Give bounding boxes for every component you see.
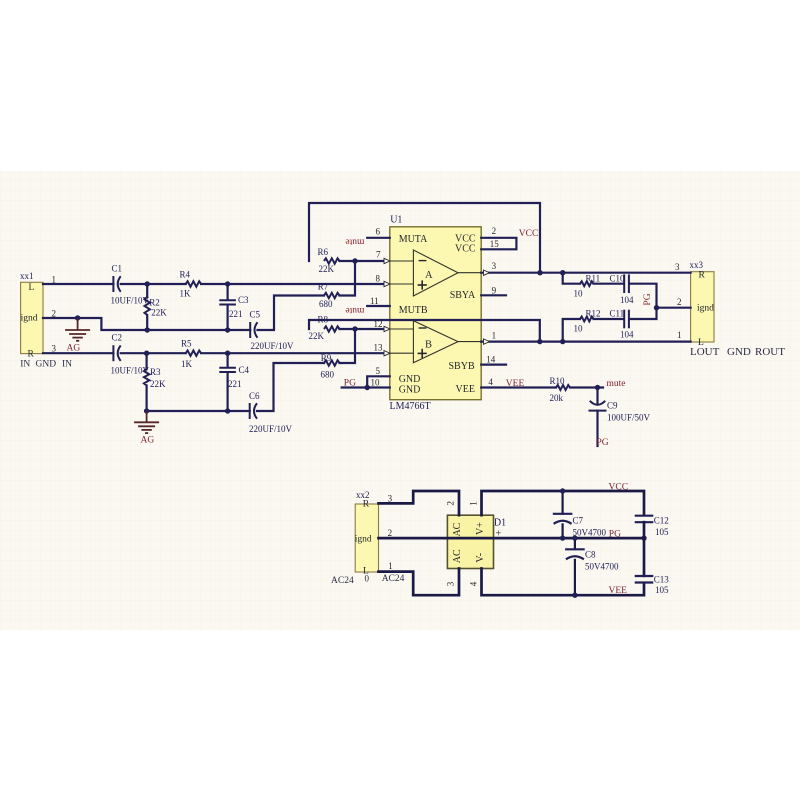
- node feedback B tap: [537, 339, 542, 344]
- svg-text:GND: GND: [36, 359, 57, 369]
- node R12 tap: [560, 339, 565, 344]
- svg-text:A: A: [425, 270, 433, 281]
- wire C10 to PG bracket: [630, 284, 657, 308]
- svg-text:0: 0: [365, 574, 370, 584]
- svg-text:8: 8: [376, 274, 381, 284]
- wire R8 to U1 pin12: [340, 328, 385, 330]
- wire xx1 pin3 to C2: [43, 352, 113, 354]
- svg-text:10: 10: [574, 324, 584, 334]
- op-amp U1 body: [390, 227, 481, 400]
- wire R11 to C10: [594, 283, 624, 285]
- svg-text:AC: AC: [452, 522, 463, 536]
- svg-text:3: 3: [388, 493, 393, 503]
- svg-text:22K: 22K: [151, 307, 167, 317]
- node AG tap: [75, 315, 80, 320]
- capacitor C3: [227, 284, 229, 300]
- svg-text:3: 3: [446, 581, 456, 586]
- capacitor C11: [623, 310, 625, 329]
- node C7 top: [560, 488, 565, 493]
- svg-text:22K: 22K: [309, 331, 325, 341]
- node pin10 junction: [365, 385, 370, 390]
- svg-text:50V4700: 50V4700: [573, 527, 607, 537]
- node C3 top: [225, 281, 230, 286]
- wire U1 pin14 stub: [481, 364, 506, 366]
- svg-text:3: 3: [52, 343, 57, 353]
- svg-text:104: 104: [620, 330, 634, 340]
- op-amp U1 internals: amp B triangle: [413, 321, 458, 363]
- svg-text:MUTA: MUTA: [399, 234, 428, 245]
- svg-text:PG: PG: [643, 293, 653, 305]
- svg-text:V+: V+: [475, 522, 486, 535]
- resistor R12: [580, 317, 594, 322]
- capacitor C6: [249, 403, 251, 419]
- svg-text:U1: U1: [390, 215, 402, 226]
- svg-text:xx3: xx3: [690, 260, 704, 270]
- wire C2 to R5: [121, 352, 186, 354]
- node C4 top: [225, 351, 230, 356]
- svg-text:104: 104: [620, 295, 634, 305]
- svg-text:1: 1: [388, 561, 393, 571]
- wire pin3 down to R11: [563, 273, 580, 284]
- svg-text:1: 1: [469, 501, 479, 506]
- svg-text:IN: IN: [20, 359, 30, 369]
- svg-text:R6: R6: [318, 247, 329, 257]
- svg-text:105: 105: [655, 527, 669, 537]
- svg-text:C12: C12: [654, 516, 669, 526]
- svg-text:10: 10: [574, 289, 584, 299]
- resistor R9: [324, 360, 340, 365]
- wire R10 to mute node: [570, 386, 603, 388]
- svg-text:LOUT: LOUT: [690, 346, 720, 358]
- svg-text:C9: C9: [607, 401, 618, 411]
- wire R5 to U1 pin13: [201, 352, 384, 354]
- node feedback A tap: [537, 270, 542, 275]
- resistor R5: [186, 351, 201, 356]
- capacitor C13: [643, 538, 646, 576]
- svg-text:R4: R4: [180, 270, 191, 280]
- capacitor C7: [561, 491, 563, 514]
- svg-text:AC: AC: [452, 549, 463, 563]
- svg-text:AG: AG: [141, 436, 155, 446]
- svg-text:C10: C10: [610, 274, 626, 284]
- resistor R10: [556, 385, 570, 390]
- node pin12 junction: [352, 326, 357, 331]
- resistor R7: [324, 293, 340, 298]
- svg-text:7: 7: [376, 250, 381, 260]
- svg-text:100UF/50V: 100UF/50V: [607, 412, 651, 422]
- svg-text:SBYB: SBYB: [449, 361, 475, 372]
- svg-text:SBYA: SBYA: [450, 290, 476, 301]
- svg-text:3: 3: [675, 262, 680, 272]
- svg-text:GND: GND: [399, 385, 421, 396]
- svg-text:PG: PG: [609, 530, 621, 540]
- wire C5 to R7: [258, 296, 325, 331]
- node R2 top: [145, 281, 150, 286]
- svg-text:PG: PG: [344, 379, 356, 389]
- node C7 bottom: [560, 535, 565, 540]
- svg-text:mute: mute: [345, 305, 364, 315]
- svg-text:R: R: [28, 350, 35, 360]
- wire U1 pins 2+15 VCC bracket: [481, 238, 516, 250]
- wire xx2 pin1 to D1 pin3: [379, 569, 460, 596]
- svg-text:ignd: ignd: [355, 534, 372, 544]
- wire R7 to pin7 node: [340, 261, 356, 296]
- svg-text:L: L: [29, 283, 35, 293]
- svg-text:5: 5: [376, 366, 381, 376]
- node C8 bottom: [572, 593, 577, 598]
- svg-text:1: 1: [677, 330, 682, 340]
- svg-text:mute: mute: [345, 237, 364, 247]
- svg-text:2: 2: [492, 226, 497, 236]
- svg-text:R12: R12: [586, 309, 601, 319]
- svg-text:2: 2: [677, 297, 682, 307]
- node PG junction: [654, 305, 659, 310]
- wire U1 pin6 stub: [367, 237, 390, 239]
- svg-text:VEE: VEE: [506, 379, 525, 389]
- svg-text:R8: R8: [318, 315, 329, 325]
- svg-text:2: 2: [52, 308, 57, 318]
- svg-text:GND: GND: [727, 346, 751, 358]
- svg-text:220UF/10V: 220UF/10V: [251, 341, 295, 351]
- svg-text:6: 6: [376, 227, 381, 237]
- svg-text:R: R: [699, 270, 706, 280]
- svg-text:MUTB: MUTB: [399, 305, 428, 316]
- wire pin1 up to R12: [563, 319, 580, 342]
- svg-text:B: B: [425, 340, 432, 351]
- bridge rectifier D1 body: [447, 515, 493, 568]
- svg-text:C6: C6: [249, 391, 260, 401]
- wire C1 to R4: [121, 283, 186, 285]
- resistor R3: [146, 353, 148, 369]
- svg-text:VCC: VCC: [519, 229, 539, 239]
- wire U1 pin3 output to xx3: [481, 272, 690, 274]
- wire PG stub: [342, 386, 368, 388]
- wire C6 to R9: [257, 363, 324, 411]
- svg-text:C2: C2: [112, 333, 123, 343]
- svg-text:R11: R11: [586, 274, 601, 284]
- svg-text:R3: R3: [150, 367, 161, 377]
- svg-text:C4: C4: [239, 365, 250, 375]
- svg-text:11: 11: [370, 296, 379, 306]
- svg-text:105: 105: [655, 585, 669, 595]
- capacitor C10: [623, 274, 625, 293]
- wire R6 to U1 pin7: [340, 260, 385, 262]
- op-amp U1 internals: amp A triangle: [413, 250, 458, 296]
- svg-text:14: 14: [486, 354, 496, 364]
- node R2 bottom: [145, 327, 150, 332]
- svg-text:R: R: [363, 500, 370, 510]
- resistor R6: [324, 258, 340, 263]
- wire xx1 pin2 (gnd): [43, 318, 250, 330]
- wire PG node to xx3 pin2: [657, 307, 691, 309]
- wire feedback loop B: [309, 320, 540, 342]
- wire D1 pin1 to VCC rail: [482, 491, 645, 515]
- node C8 top: [572, 535, 577, 540]
- svg-text:1K: 1K: [181, 359, 193, 369]
- svg-text:C1: C1: [112, 264, 123, 274]
- svg-text:2: 2: [388, 528, 393, 538]
- svg-text:22K: 22K: [150, 379, 166, 389]
- svg-text:AG: AG: [67, 344, 81, 354]
- svg-text:15: 15: [490, 239, 500, 249]
- svg-text:PG: PG: [597, 438, 609, 448]
- svg-text:LM4766T: LM4766T: [390, 401, 431, 412]
- wire D1 pin4 to VEE rail: [482, 569, 645, 596]
- capacitor C1: [112, 276, 114, 292]
- svg-text:R5: R5: [181, 339, 192, 349]
- svg-text:C3: C3: [238, 295, 249, 305]
- connector xx1 body: [21, 282, 43, 353]
- wire R9 to pin12 node: [340, 329, 356, 363]
- svg-text:680: 680: [319, 299, 333, 309]
- U1 input arrows pins 7,8,12,13: [384, 258, 390, 263]
- schematic sheet background: [0, 171, 800, 630]
- svg-text:AC24: AC24: [331, 576, 354, 586]
- resistor R4: [186, 281, 201, 286]
- svg-text:C11: C11: [610, 309, 625, 319]
- svg-text:R7: R7: [318, 281, 329, 291]
- wire top feedback loop A: [309, 203, 540, 273]
- svg-text:10: 10: [371, 378, 381, 388]
- svg-text:680: 680: [321, 370, 335, 380]
- wire xx2 pin3 to D1 pin2: [379, 491, 460, 515]
- ground AG (R channel): [146, 411, 148, 422]
- wire C11 to PG bracket: [630, 308, 657, 319]
- connector xx3 body: [691, 272, 714, 342]
- svg-text:13: 13: [374, 343, 384, 353]
- svg-text:ROUT: ROUT: [755, 346, 785, 358]
- resistor R11: [580, 281, 594, 286]
- svg-text:C13: C13: [654, 574, 670, 584]
- capacitor C5: [249, 322, 251, 338]
- svg-text:VCC: VCC: [455, 244, 476, 255]
- svg-text:1: 1: [52, 274, 57, 284]
- svg-text:C5: C5: [250, 310, 261, 320]
- capacitor C2: [112, 345, 114, 361]
- svg-text:xx1: xx1: [20, 271, 34, 281]
- wire U1 pin1 output to xx3: [481, 341, 690, 343]
- svg-text:20k: 20k: [550, 393, 564, 403]
- resistor R8: [324, 326, 340, 331]
- svg-text:mute: mute: [607, 379, 626, 389]
- svg-text:220UF/10V: 220UF/10V: [249, 424, 293, 434]
- svg-text:221: 221: [228, 379, 242, 389]
- svg-text:4: 4: [469, 581, 479, 586]
- svg-text:1K: 1K: [180, 288, 192, 298]
- svg-text:ignd: ignd: [21, 314, 38, 324]
- wire xx1 pin1 to C1: [43, 283, 113, 285]
- svg-text:C7: C7: [573, 516, 584, 526]
- wire U1 pin11 stub: [367, 305, 390, 307]
- node R3 bottom: [144, 408, 149, 413]
- wire U1 pins 5+10 PG bracket: [367, 376, 390, 387]
- svg-text:4: 4: [488, 377, 493, 387]
- svg-text:R9: R9: [321, 353, 332, 363]
- svg-text:3: 3: [492, 261, 497, 271]
- svg-text:9: 9: [492, 286, 497, 296]
- node R3 top: [144, 351, 149, 356]
- wire xx2 pin2 / PG mid line: [379, 537, 645, 540]
- svg-text:22K: 22K: [319, 264, 335, 274]
- svg-text:GND: GND: [399, 374, 421, 385]
- wire bottom row to C6: [147, 410, 250, 412]
- svg-text:VCC: VCC: [609, 482, 629, 492]
- svg-text:VEE: VEE: [456, 384, 475, 395]
- svg-text:R2: R2: [149, 298, 160, 308]
- wire R12 to C11: [594, 318, 624, 320]
- resistor R2: [146, 284, 148, 297]
- node mute/C9: [595, 385, 600, 390]
- svg-text:AC24: AC24: [382, 574, 405, 584]
- svg-text:V-: V-: [475, 553, 486, 563]
- node C4 bottom: [225, 408, 230, 413]
- svg-text:D1: D1: [494, 517, 506, 528]
- capacitor C12: [635, 515, 654, 517]
- node R11 tap: [560, 270, 565, 275]
- ground AG (input): [77, 318, 79, 330]
- svg-text:12: 12: [374, 319, 383, 329]
- capacitor C8: [574, 538, 576, 549]
- wire U1 pin9 stub: [481, 294, 506, 296]
- svg-text:VEE: VEE: [609, 586, 628, 596]
- svg-text:10UF/10V: 10UF/10V: [111, 296, 150, 306]
- svg-text:+: +: [496, 529, 502, 540]
- svg-text:2: 2: [446, 501, 456, 506]
- svg-text:50V4700: 50V4700: [585, 562, 619, 572]
- svg-text:ignd: ignd: [697, 304, 714, 314]
- node PG rail end: [641, 535, 646, 540]
- node pin7 junction: [352, 258, 357, 263]
- svg-text:221: 221: [229, 309, 243, 319]
- U1 output arrow pin1: [484, 339, 490, 344]
- wire R4 to U1 pin8: [201, 283, 384, 285]
- svg-text:xx2: xx2: [356, 490, 370, 500]
- node C3 bottom: [225, 327, 230, 332]
- wire U1 pin4 VEE to R10: [481, 386, 556, 388]
- svg-text:1: 1: [492, 331, 497, 341]
- svg-text:R10: R10: [550, 376, 566, 386]
- svg-text:IN: IN: [62, 359, 72, 369]
- capacitor C9: [596, 388, 598, 405]
- connector xx2 body: [355, 504, 378, 572]
- capacitor C4: [227, 353, 229, 367]
- U1 output arrow pin3: [484, 270, 490, 275]
- svg-text:C8: C8: [585, 550, 596, 560]
